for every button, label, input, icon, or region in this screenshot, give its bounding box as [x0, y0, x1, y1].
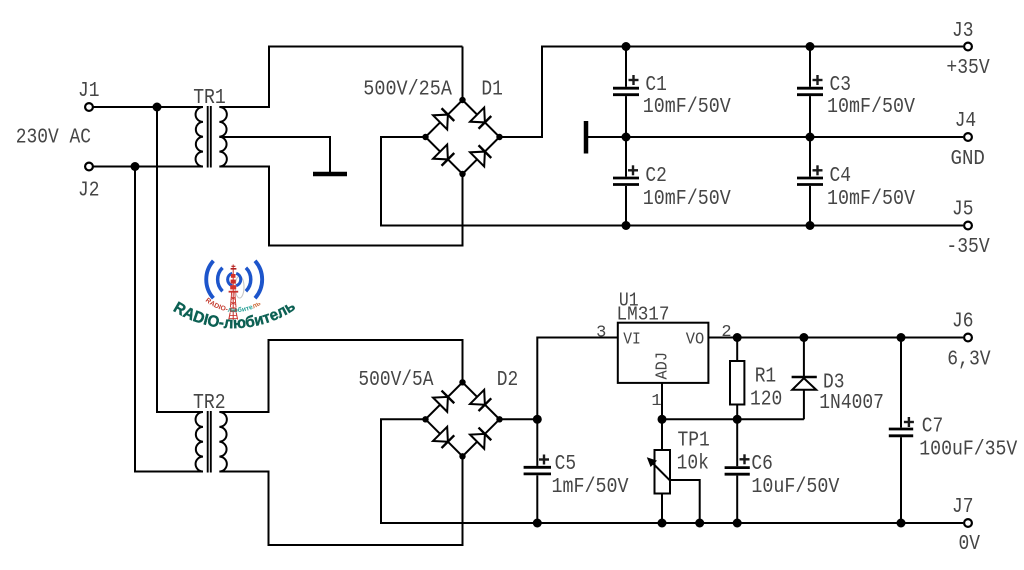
GND bar plate [584, 121, 589, 154]
svg-text:6,3V: 6,3V [947, 349, 991, 372]
logo RADIO-lyubitel [170, 261, 298, 333]
node 0V rail / TP1 wiper junction [695, 519, 704, 528]
logo blue waves [228, 273, 233, 285]
svg-text:C1: C1 [645, 74, 667, 97]
ground plate (TR1 center tap) [313, 172, 347, 177]
svg-text:D2: D2 [497, 369, 519, 392]
node -35V rail / C2 junction [622, 221, 631, 230]
wire D1 - output down to -35V rail [381, 137, 963, 226]
wire D1 + output up to +35V rail [500, 47, 964, 138]
connector J4 terminal [964, 133, 972, 141]
node GND rail / C1-C2 junction [622, 133, 631, 142]
logo red tower [229, 265, 239, 321]
connector J2 terminal [85, 163, 93, 171]
capacitor C7 [889, 338, 1018, 524]
svg-text:R1: R1 [755, 365, 777, 388]
bridge rectifier D1 [422, 97, 502, 177]
wire J1 to TR1 primary top [93, 106, 203, 108]
svg-text:J6: J6 [952, 311, 974, 334]
wire TR1 secondary bottom to D1 bottom (AC2) [219, 167, 462, 246]
wire TR1 center tap [219, 137, 330, 172]
capacitor C6 [725, 419, 840, 523]
svg-text:1mF/50V: 1mF/50V [552, 476, 629, 499]
wire TR1 secondary top to top rail [219, 47, 462, 108]
resistor R1 [730, 338, 744, 420]
wire ADJ pin down [661, 383, 663, 419]
connector J3 terminal [964, 43, 972, 51]
node D2+/C5/VI junction [533, 415, 542, 424]
node 0V rail / C7 junction [897, 519, 906, 528]
capacitor C2 [613, 137, 731, 226]
svg-text:C6: C6 [751, 453, 773, 476]
svg-text:10mF/50V: 10mF/50V [827, 188, 915, 211]
svg-text:LM317: LM317 [617, 303, 670, 325]
wire vertical J2 branch down to TR2 primary bottom [135, 167, 203, 472]
connector J5 terminal [964, 222, 972, 230]
wire ADJ rail [662, 418, 804, 420]
potentiometer TP1 [647, 419, 700, 523]
capacitor C5 [524, 419, 629, 523]
wire J2 to TR1 primary bottom [93, 166, 203, 168]
svg-text:C2: C2 [645, 165, 667, 188]
svg-text:1: 1 [651, 392, 661, 411]
diode D3 [792, 338, 817, 420]
wire D2 + output to VI / C5 node [500, 338, 618, 420]
svg-text:+35V: +35V [946, 57, 990, 80]
svg-text:500V/5A: 500V/5A [358, 369, 433, 392]
logo gray oval [235, 276, 244, 298]
node +35V rail / C1 junction [622, 42, 631, 51]
node 0V rail / C6 junction [733, 519, 742, 528]
svg-text:C7: C7 [922, 416, 944, 439]
bridge rectifier D2 [422, 379, 502, 459]
svg-text:120: 120 [750, 388, 782, 411]
svg-text:ADJ: ADJ [654, 352, 673, 380]
svg-text:2: 2 [721, 323, 731, 342]
svg-text:J2: J2 [78, 179, 100, 202]
svg-text:D1: D1 [481, 79, 503, 102]
svg-text:J7: J7 [952, 496, 974, 519]
svg-text:230V AC: 230V AC [16, 127, 91, 150]
wire TR2 secondary bottom to D2 bottom (AC2) [219, 456, 462, 545]
node ADJ / R1-C6 junction [733, 415, 742, 424]
capacitor C1 [613, 47, 731, 138]
op-amp U1 regulator LM317 box [618, 323, 709, 383]
capacitor C3 [797, 47, 915, 138]
node -35V rail / C4 junction [806, 221, 815, 230]
svg-text:C3: C3 [830, 74, 852, 97]
transformer TR1 [196, 106, 227, 168]
wire vertical J1 branch down to TR2 primary top [157, 107, 203, 412]
wire GND rail [586, 136, 963, 138]
svg-text:J4: J4 [955, 110, 977, 133]
wire D2 - output to 0V rail [381, 419, 963, 523]
capacitor C4 [797, 137, 915, 226]
svg-text:GND: GND [951, 148, 985, 171]
node GND rail / C3-C4 junction [806, 133, 815, 142]
svg-text:J3: J3 [952, 20, 974, 43]
svg-text:TP1: TP1 [678, 430, 710, 453]
svg-text:10mF/50V: 10mF/50V [827, 96, 915, 119]
wire TR2 secondary top to D2 top (AC1) [219, 340, 462, 412]
node VO rail / C7 junction [897, 333, 906, 342]
node VO rail / R1 junction [733, 333, 742, 342]
svg-text:VI: VI [623, 331, 641, 350]
connector J7 terminal [964, 519, 972, 527]
svg-text:500V/25A: 500V/25A [363, 79, 452, 102]
svg-text:10mF/50V: 10mF/50V [643, 96, 731, 119]
svg-text:C5: C5 [555, 453, 577, 476]
svg-text:1N4007: 1N4007 [819, 392, 884, 415]
svg-text:VO: VO [686, 331, 705, 350]
node junction J1/branch [153, 103, 162, 112]
svg-text:10mF/50V: 10mF/50V [643, 188, 731, 211]
transformer TR2 [196, 411, 227, 473]
connector J1 terminal [85, 103, 93, 111]
node ADJ / TP1 junction [658, 415, 667, 424]
wire VO rail to J6 [708, 337, 963, 339]
node 0V rail / TP1 junction [658, 519, 667, 528]
svg-text:10k: 10k [677, 452, 709, 475]
connector J6 terminal [964, 334, 972, 342]
svg-text:0V: 0V [959, 533, 981, 556]
svg-text:C4: C4 [830, 165, 852, 188]
node junction J2/branch [131, 162, 140, 171]
node 0V rail / C5 junction [533, 519, 542, 528]
wire top rail down to D1 top (AC1) [462, 47, 464, 101]
node +35V rail / C3 junction [806, 42, 815, 51]
svg-text:10uF/50V: 10uF/50V [751, 476, 839, 499]
svg-text:100uF/35V: 100uF/35V [919, 439, 1017, 462]
node VO rail / D3 junction [799, 333, 808, 342]
svg-text:-35V: -35V [946, 236, 990, 259]
svg-text:J5: J5 [952, 199, 974, 222]
svg-text:J1: J1 [78, 80, 100, 103]
svg-text:3: 3 [596, 324, 606, 343]
